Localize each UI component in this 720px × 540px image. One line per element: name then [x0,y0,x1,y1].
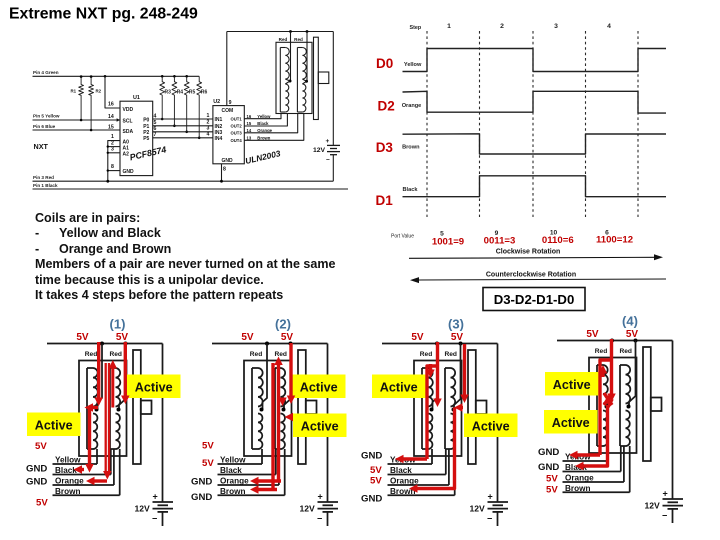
red current arrow: 5V into left tap (step 3) [436,342,439,401]
svg-text:12V: 12V [300,504,316,514]
node: strap bus to Pin3 rail [106,180,109,183]
node: R2 to SDA wire [90,129,93,132]
battery B1 12V feed wire [332,32,334,146]
waveform trace D2 Orange [403,91,667,113]
red current arrow: 5V into left tap (step 1) [97,342,100,400]
wire: right red center tap (step 4) [629,341,636,407]
node: right tap junction (step 2) [289,342,293,346]
node: left tap junction (step 4) [610,339,614,343]
svg-text:−: − [487,514,492,524]
svg-text:Brown: Brown [55,487,80,496]
wire: NXT Pin 5 Yellow (SCL) [33,119,121,121]
svg-text:GND: GND [26,477,47,488]
right winding coils (step 4) [619,365,621,446]
resistor R5 (P2 pull-up) [184,76,189,132]
D3-D2-D1-D0 boxed label [483,288,585,311]
svg-text:Orange: Orange [565,474,594,483]
battery 12V (step 4) [663,498,684,500]
wire: right red center tap (step 2) [284,344,291,410]
step boundary dashed line 3 [532,31,534,217]
wire: NXT Pin 4 Green (VDD rail) [33,75,200,77]
wire: P5 to U2 IN4 [153,137,213,139]
wire: battery feed (step 3) [497,344,499,503]
resistor R1 (SCL pull-up) [79,77,84,120]
svg-text:+: + [318,492,323,502]
svg-text:Red: Red [85,351,97,358]
wire: right red center tap (step 1) [119,344,126,410]
wire: Orange lead (step 2) [218,484,279,486]
node: VDD rail junction to R5 [185,75,188,78]
svg-text:5V: 5V [35,441,47,452]
svg-text:(3): (3) [448,316,464,331]
node: R5 to P2 wire [185,131,188,134]
svg-text:5V: 5V [116,332,129,343]
wire: A0/A1/A2/GND strap bus to ground [108,141,120,182]
node: right center tap (step 3) [452,408,456,412]
node: R6 to P5 wire [198,137,201,140]
node: right winding center tap [305,80,308,83]
svg-text:GND: GND [538,447,559,458]
U1 SCL input arrow [117,118,120,122]
left winding coils (step 4) [596,365,598,446]
Active highlight 2 (step 4) [544,410,598,434]
wire: battery feed (step 4) [672,341,674,500]
Active highlight 2 (step 2) [293,414,347,438]
wire: right red center tap (step 3) [454,344,461,410]
wire: Yellow lead (step 4) [563,460,608,462]
wire: Black lead (step 2) [218,474,276,476]
node: left center tap (step 1) [95,408,99,412]
right winding coils (step 1) [109,368,111,449]
red current arrow: 5V into right tap (step 2) [289,343,292,398]
wire: right red center tap [306,32,308,82]
svg-text:5V: 5V [202,441,214,452]
node: VDD rail junction to R3 [161,75,164,78]
wire: Brown lead (step 3) [388,494,455,496]
resistor R3 (P0 pull-up) [160,76,165,119]
svg-text:−: − [152,514,157,524]
svg-text:5V: 5V [370,465,382,476]
Active highlight 2 (step 1) [27,413,81,437]
wire: Orange lead (step 3) [388,484,449,486]
node: left center tap (step 2) [260,408,264,412]
wire: left red center tap [290,32,292,82]
node A1 strap [107,145,109,147]
wire: 5V top rail (step 2) [212,343,328,345]
wire: OUT1 to motor yellow lead [244,114,281,119]
svg-text:Active: Active [300,381,338,395]
waveform trace D1 Black [403,176,667,197]
resistor R4 (P1 pull-up) [172,76,177,126]
red current arrow: out Orange lead (step 2) [255,479,281,482]
red current arrow: into left upper coil (step 3) [429,364,432,372]
stepper motor body (step 4) [589,358,637,454]
red current arrow: out Yellow lead (step 4) [574,453,600,456]
svg-text:Red: Red [619,348,631,355]
svg-text:Orange: Orange [390,477,419,486]
stepper motor body (step 1) [79,361,127,457]
red current arrow: 5V into right tap (step 3) [463,344,466,397]
stepper motor body (step 3) [414,361,462,457]
wire: 5V top rail (step 4) [557,340,673,342]
svg-text:Orange: Orange [220,477,249,486]
svg-text:5V: 5V [546,485,558,496]
svg-text:5V: 5V [36,498,48,509]
Active highlight 1 (step 3) [372,375,426,399]
red current arrow: out Brown lead (step 2) [255,488,277,491]
stepper motor rotor bar (step 4) [643,347,651,461]
svg-text:GND: GND [538,462,559,473]
wire: NXT Pin 3 Red (ground rail) [33,180,334,182]
U2 pin 9 COM riser to +12V rail [226,32,228,106]
wire: OUT3 to motor orange lead [244,114,297,133]
svg-text:GND: GND [191,477,212,488]
battery 12V (step 2) [318,501,339,503]
U2 pin 8 stub to ground rail [221,164,223,181]
svg-text:Red: Red [250,351,262,358]
resistor R2 (SDA pull-up) [89,77,94,130]
svg-text:(2): (2) [275,316,291,331]
wire: Orange lead (step 1) [53,484,114,486]
node: left red tap to +12V rail [289,30,292,33]
node: U2 GND to Pin3 rail [220,180,223,183]
stepper motor M1 body [276,42,312,113]
svg-text:Black: Black [390,466,412,475]
node: left tap junction (step 1) [100,342,104,346]
battery 12V (step 1) [153,501,174,503]
op-amp U1 PCF8574 body [120,101,153,175]
stepper motor rotor bar (step 2) [298,350,306,464]
node: VDD rail junction to U1 VDD riser [104,75,107,78]
node: right red tap to +12V rail [306,30,309,33]
wire: 5V top rail (step 3) [382,343,498,345]
stepper motor M1 shaft [318,72,329,84]
red current path: down to Black lead (step 1) [88,408,91,468]
red current arrow: up left coil (step 4) [601,369,604,377]
node: left tap junction (step 3) [435,342,439,346]
node: left tap junction (step 2) [265,342,269,346]
svg-text:−: − [662,511,667,521]
svg-text:Black: Black [220,466,242,475]
red current arrow: into right lower coil (step 2) [289,415,293,418]
node: VDD rail junction to R4 [173,75,176,78]
svg-text:+: + [663,489,668,499]
wire: left red center tap (step 3) [433,344,438,410]
node: R4 to P1 wire [173,125,176,128]
Active highlight 1 (step 4) [545,372,599,396]
svg-text:Red: Red [420,351,432,358]
counterclockwise rotation arrow [417,279,666,280]
red current path: down to Orange lead (step 1) [105,363,107,474]
stepper motor rotor bar (step 1) [133,350,141,464]
resistor R6 (P5 pull-up) [197,76,202,138]
waveform trace D3 Brown [403,134,667,154]
svg-text:Active: Active [472,420,510,434]
slide body text [35,211,365,304]
stepper motor rotor bar (step 3) [468,350,476,464]
svg-text:5V: 5V [202,458,214,469]
svg-text:12V: 12V [470,504,486,514]
driver U2 ULN2003 body [213,106,244,164]
svg-text:−: − [317,514,322,524]
right winding coils (step 3) [444,368,446,449]
left winding coils (step 3) [421,368,423,449]
node: VDD rail junction to R1 [80,75,83,78]
wire: battery feed (step 2) [327,344,329,503]
node: right center tap (step 1) [117,408,121,412]
red current path: hook into left upper coil (step 3) [427,366,438,459]
red current path: down to Brown lead (step 3) [414,408,455,489]
wire: left red center tap (step 4) [608,341,613,407]
node: right tap junction (step 4) [634,339,638,343]
node: right tap junction (step 3) [459,342,463,346]
wire: A1 stub [108,146,120,148]
wire: U1 GND stub [108,170,120,172]
svg-text:GND: GND [191,492,212,503]
svg-text:Brown: Brown [220,487,245,496]
step boundary dashed line 5 [637,31,639,217]
svg-text:Yellow: Yellow [220,456,246,465]
wire: Yellow lead (step 3) [388,463,433,465]
svg-text:Active: Active [301,420,339,434]
wire: A2 stub [108,152,120,154]
wire: left red center tap (step 2) [263,344,268,410]
svg-text:5V: 5V [626,329,639,340]
red current arrow: up through right upper coil (step 2) [277,362,280,481]
red current arrow: 5V into right tap (step 1) [124,342,127,398]
wire: Yellow lead (step 2) [218,463,263,465]
svg-text:12V: 12V [135,504,151,514]
Active highlight 1 (step 1) [127,375,181,399]
step boundary dashed line 2 [479,31,481,217]
svg-text:Red: Red [595,348,607,355]
red current arrow: 5V into left tap (step 4) [610,339,613,396]
svg-text:(4): (4) [622,313,638,328]
wire: Yellow lead (step 1) [53,463,98,465]
node: right tap junction (step 1) [124,342,128,346]
node A2 strap [107,152,109,154]
wire: Orange lead (step 4) [563,481,624,483]
red current arrow: up through right upper coil (step 1) [111,366,114,408]
svg-text:5V: 5V [76,332,89,343]
stepper motor M1 rotor bar [314,37,319,119]
wire: 5V top rail (step 1) [47,343,163,345]
svg-text:GND: GND [361,494,382,505]
svg-text:5V: 5V [546,474,558,485]
wire: Black lead (step 4) [563,471,621,473]
svg-text:Yellow: Yellow [55,456,81,465]
svg-text:5V: 5V [586,329,599,340]
waveform trace D0 Yellow [403,49,667,72]
wire: Brown lead (step 4) [563,491,630,493]
svg-text:Active: Active [552,416,590,430]
red current arrow: into right lower coil (step 3) [459,406,463,409]
wire: P1 to U2 IN2 [153,125,213,127]
battery 12V (step 3) [488,501,509,503]
node: VDD rail junction to R2 [90,75,93,78]
node: left center tap (step 3) [430,408,434,412]
motor coil L1a/L1b (left winding) [279,48,281,113]
svg-text:Red: Red [109,351,121,358]
svg-text:Active: Active [135,381,173,395]
red current path: down to Black lead (step 4) [580,405,608,466]
wire: P2 to U2 IN3 [153,131,213,133]
node: R3 to P0 wire [161,118,164,121]
step boundary dashed line 4 [585,31,587,217]
stepper motor body (step 2) [244,361,292,457]
left winding coils (step 2) [251,368,253,449]
wire: Brown lead (step 1) [53,494,120,496]
svg-text:+: + [153,492,158,502]
wire: OUT4 to motor brown lead [244,114,303,141]
node U1 GND strap [107,169,109,171]
red current path: right lower coil down (step 2) [271,363,274,490]
svg-text:5V: 5V [451,332,464,343]
stepper motor shaft (step 2) [306,401,317,415]
svg-text:(1): (1) [110,316,126,331]
node: left winding center tap [289,80,292,83]
svg-text:GND: GND [361,451,382,462]
wire: OUT2 to motor black lead [244,114,287,127]
wire: Brown lead (step 2) [218,494,285,496]
svg-text:5V: 5V [241,332,254,343]
motor coil L2a/L2b (right winding) [296,48,298,113]
svg-text:Active: Active [553,378,591,392]
stepper motor shaft (step 1) [141,401,152,415]
wire: Black lead (step 3) [388,474,446,476]
svg-text:Active: Active [35,419,73,433]
wire: battery feed (step 1) [162,344,164,503]
stepper motor shaft (step 4) [651,398,662,412]
svg-text:+: + [488,492,493,502]
wire: VDD riser from green rail to U1 pin 16 [105,76,120,108]
wire: NXT Pin 6 Blue (SDA) [33,129,121,131]
red current path: hook into left upper coil (step 4) [600,360,612,455]
wire: +12V top rail [227,31,333,33]
svg-text:Black: Black [55,466,77,475]
red current cross marks at center tap (step 4) [604,393,612,405]
svg-text:Red: Red [444,351,456,358]
wire: P0 to U2 IN1 [153,118,213,120]
clockwise rotation arrow [409,257,656,258]
wire: Black lead (step 1) [53,474,111,476]
Active highlight 1 (step 2) [292,375,346,399]
red current arrow: out Yellow lead (step 3) [400,457,427,460]
node: R1 to SCL wire [80,119,83,122]
Active highlight 2 (step 3) [464,414,518,438]
node: right center tap (step 2) [282,408,286,412]
svg-text:Red: Red [274,351,286,358]
wire: NXT Pin 1 Black [33,188,349,190]
wire: left red center tap (step 1) [98,344,103,410]
svg-text:5V: 5V [370,476,382,487]
svg-text:5V: 5V [281,332,294,343]
svg-text:5V: 5V [411,332,424,343]
svg-text:Orange: Orange [55,477,84,486]
stepper motor shaft (step 3) [476,401,487,415]
svg-text:12V: 12V [645,501,661,511]
node: right center tap (step 4) [627,405,631,409]
svg-text:GND: GND [26,464,47,475]
battery B1 12V [327,144,340,146]
svg-text:Active: Active [380,381,418,395]
right winding coils (step 2) [274,368,276,449]
red current arrow: into left lower coil (step 1) [89,406,98,409]
node: left center tap (step 4) [605,405,609,409]
svg-text:Brown: Brown [565,484,590,493]
left winding coils (step 1) [86,368,88,449]
step boundary dashed line 1 [426,31,428,217]
